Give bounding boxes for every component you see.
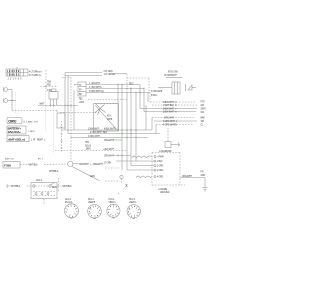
svg-text:ORG/WHT: ORG/WHT [104, 140, 115, 142]
text TB SOL rows [85, 142, 91, 151]
svg-text:ACC 1 .: ACC 1 . [36, 179, 44, 182]
svg-text:+ FRAME .: + FRAME . [158, 188, 168, 191]
svg-text:IGN .: IGN . [107, 116, 112, 118]
wire staircase verticals right [146, 105, 156, 134]
PDM dashed box right [152, 153, 185, 186]
svg-text:SOL B: SOL B [85, 145, 91, 147]
svg-text:WHT/BLK .: WHT/BLK . [49, 171, 60, 173]
vertical dashed x61.5 harness [61, 121, 63, 153]
svg-text:ORG/WHT: ORG/WHT [104, 156, 115, 158]
svg-text:4 ORG/WHT: 4 ORG/WHT [151, 91, 163, 93]
wire out of ignition switch [57, 186, 72, 188]
wire diagonal [72, 167, 99, 181]
svg-text:1 LT GRN/W: 1 LT GRN/W [104, 74, 116, 76]
svg-text:CL .: CL . [201, 125, 205, 127]
svg-text:) i . L rrem . + rt +: ) i . L rrem . + rt + [24, 121, 39, 124]
wire BLK/WHT row [86, 87, 144, 89]
svg-text:4 GRD: 4 GRD [157, 177, 164, 179]
svg-text:4 ORG WHT . L: 4 ORG WHT . L [163, 121, 178, 123]
wire into ignition switch [7, 184, 31, 188]
svg-text:4 BLK WHT . b: 4 BLK WHT . b [163, 102, 177, 104]
svg-text:12V+CCA+: 12V+CCA+ [8, 130, 22, 134]
wire right row y121 [154, 121, 197, 123]
svg-text:VIEW D: VIEW D [129, 202, 137, 204]
wire right row y108.5 [140, 109, 197, 111]
vertical trunk x68 [67, 76, 69, 134]
svg-text:BRK: BRK [201, 118, 206, 120]
connector plug P4 [127, 199, 140, 219]
wire bus y105 [38, 104, 78, 107]
svg-text:+BAT+SOL rd: +BAT+SOL rd [8, 137, 26, 141]
svg-text:TB1 .: TB1 . [85, 142, 90, 144]
svg-text:GROUND: GROUND [160, 192, 170, 194]
svg-text:1 . AT . REMT . L: 1 . AT . REMT . L [31, 139, 47, 142]
text TB2 cluster [79, 99, 85, 104]
svg-text:1 BLK: 1 BLK [157, 161, 163, 163]
svg-text:PLG 3 .: PLG 3 . [129, 199, 136, 201]
switch S2 small box [49, 89, 58, 105]
junctions on rows [118, 84, 144, 94]
svg-text:WHT/BLK: WHT/BLK [63, 186, 73, 188]
svg-text:GRD: GRD [201, 175, 206, 177]
wire dashed rows y167-170 left [105, 167, 120, 169]
wire row A y130 [61, 128, 152, 131]
svg-text:ORG/WHT: ORG/WHT [182, 176, 193, 178]
box lamp relay small [57, 111, 65, 129]
svg-text:1 BLK WHT: 1 BLK WHT [88, 128, 100, 130]
comb vertical x148 [147, 93, 149, 103]
svg-text:PLG 2 .: PLG 2 . [109, 199, 116, 201]
wire LT GRN top run [65, 71, 127, 76]
svg-text:rm . t: rm . t [38, 158, 43, 161]
comb vertical x140 [139, 85, 141, 109]
svg-text:. ORG WHT .: . ORG WHT . [163, 118, 175, 120]
label box chassis (left col A) [7, 118, 39, 124]
svg-text:4 LT GRN rd +: 4 LT GRN rd + [29, 70, 43, 73]
comb vertical x127 [126, 92, 128, 170]
svg-text:1 WHT BLK . b: 1 WHT BLK . b [163, 105, 177, 107]
connector plug P3 [107, 199, 120, 218]
wire corner rows into dashed box [127, 161, 154, 170]
wire drop below ignition switch [43, 199, 45, 205]
svg-text:WHT: WHT [40, 104, 45, 106]
svg-text:w b r t . m: w b r t . m [5, 158, 14, 161]
text bottom-left smudge row [5, 158, 43, 161]
svg-text:. i . ar m .: . i . ar m . [28, 130, 36, 133]
svg-text:F 20A: F 20A [4, 164, 12, 168]
svg-text:WHT/BLK: WHT/BLK [11, 186, 21, 188]
svg-text:+12 B: +12 B [79, 102, 85, 104]
label solenoid rows [151, 91, 163, 97]
svg-text:LT GRN/WHT: LT GRN/WHT [164, 75, 177, 77]
headlamp L1 [4, 87, 13, 91]
svg-text:GRN: GRN [90, 176, 95, 178]
wire rows into PDM rows [104, 140, 136, 165]
svg-text:VIEW B: VIEW B [88, 202, 96, 204]
svg-text:2 ORG WHT . BLK: 2 ORG WHT . BLK [90, 132, 108, 134]
wire dashed row y99.5 [88, 99, 127, 101]
wire right row y102 [150, 102, 196, 104]
svg-text:123456: 123456 [8, 78, 23, 80]
splice circle x122 [105, 175, 128, 187]
right margin labels column [201, 102, 207, 127]
connector TB1 (top-left terminal block) [6, 67, 28, 81]
svg-text:SW B: SW B [107, 119, 113, 121]
svg-text:4 ORG WHT B: 4 ORG WHT B [163, 125, 177, 127]
svg-text:C845J: C845J [8, 119, 16, 123]
svg-text:2 LT GRN d +: 2 LT GRN d + [29, 75, 42, 77]
label LT GRN pair right of TB1 [29, 70, 43, 76]
label box harness (left col C) [7, 136, 46, 142]
comb vertical x122 [121, 85, 123, 171]
wire ground run [180, 172, 208, 191]
wire RD/WHT row [74, 83, 140, 85]
svg-text:1 . RD WHT .: 1 . RD WHT . [89, 83, 101, 85]
svg-text:3 ORG: 3 ORG [157, 170, 164, 172]
comb vertical x144 [143, 89, 145, 112]
vertical trunk x65 [64, 73, 66, 131]
svg-text:2 . BLK WHT +: 2 . BLK WHT + [89, 87, 103, 89]
svg-text:ACC 1 .: ACC 1 . [65, 198, 72, 201]
wire right row y117.5 [152, 118, 195, 120]
wire zigzag into PDM row5 [136, 176, 152, 178]
svg-text:VIEW C: VIEW C [109, 202, 117, 204]
svg-text:SEAT: SEAT [201, 108, 207, 111]
wire row C y137.5 [71, 136, 148, 139]
svg-text:2 BLK WHT . b: 2 BLK WHT . b [163, 112, 177, 114]
relay fuel solenoid [159, 128, 180, 153]
wire right row y124.5 [156, 125, 194, 127]
interlock module dashed box [127, 74, 149, 92]
vertical trunk x71 dashed [62, 77, 71, 79]
svg-text:+ BLK WHT: + BLK WHT [103, 149, 115, 151]
label box battery (left col B) [7, 126, 36, 134]
svg-text:3 ORG WHT (4): 3 ORG WHT (4) [89, 91, 104, 93]
wire row B y133.5 [68, 132, 160, 135]
svg-text:PLG 1 .: PLG 1 . [88, 199, 95, 201]
wire right row y105 [152, 105, 197, 107]
svg-text:FR.: FR. [201, 172, 205, 174]
svg-text:SW .: SW . [201, 112, 206, 114]
connector plug P2 [88, 199, 102, 219]
connector C2 mid [78, 82, 86, 96]
connector plug P1 [65, 198, 79, 218]
wire zigzag into PDM row1 [132, 156, 152, 158]
comb vertical x118 [117, 85, 119, 131]
wire dashed y103.5 [95, 103, 118, 105]
interlock connector right [158, 72, 196, 94]
wire dashed y112.5 [60, 112, 100, 114]
svg-text:BLK/WHT . + . ORG/WHT . .: BLK/WHT . + . ORG/WHT . . [80, 164, 106, 166]
wire ORG/WHT row [86, 91, 150, 93]
svg-text:2 GRN: 2 GRN [157, 166, 164, 168]
svg-text:SW .: SW . [201, 105, 206, 107]
svg-text:PTO .: PTO . [201, 102, 207, 104]
wire right row y111.5 [144, 112, 196, 114]
fuse box F1 [3, 162, 68, 169]
svg-text:LT GRN: LT GRN [104, 163, 112, 165]
vertical dashed x58.5 [52, 178, 59, 192]
wire long dashed y153 [55, 150, 127, 152]
svg-text:3 ORG WHT .: 3 ORG WHT . [88, 136, 101, 138]
svg-text:WHT/BLK: WHT/BLK [29, 164, 39, 166]
key switch box [94, 104, 119, 132]
wire lamp bus [11, 90, 57, 114]
wire drop vert x45.5 [40, 70, 58, 153]
node splice ring [68, 161, 106, 166]
svg-text:REG: REG [129, 84, 134, 86]
comb vertical x131 [130, 89, 132, 166]
headlamp L2 [4, 98, 17, 102]
svg-text:INTLK SW: INTLK SW [168, 72, 178, 74]
svg-text:3 BLK WHT . +: 3 BLK WHT . + [163, 109, 177, 111]
svg-text:w SOLENOID: w SOLENOID [159, 151, 172, 153]
svg-text:4 BLK WHT +: 4 BLK WHT + [104, 128, 117, 130]
svg-text:B SOL .: B SOL . [151, 95, 158, 97]
svg-text:TB2 .: TB2 . [79, 99, 84, 101]
ignition switch box [31, 179, 57, 199]
svg-text:789012: 789012 [7, 73, 20, 76]
vertical trunk x74 [73, 90, 75, 130]
svg-text:+ PWR: + PWR [157, 157, 164, 159]
comb vertical x136 [135, 93, 137, 162]
svg-text:2 LT GRN: 2 LT GRN [104, 71, 113, 73]
